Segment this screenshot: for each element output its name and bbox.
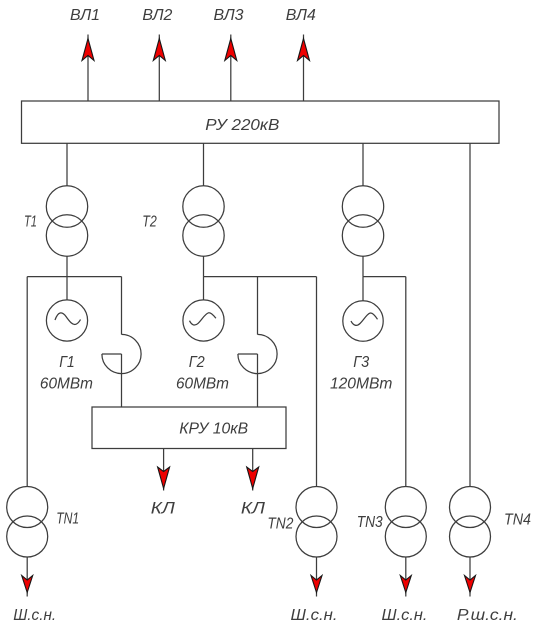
label Р.ш.с.н. (457, 607, 518, 624)
wire ВЛ3 to РУ 220кВ (230, 35, 232, 102)
generator Г3 (343, 301, 383, 341)
svg-text:Ш.с.н.: Ш.с.н. (13, 607, 56, 624)
arrow ВЛ3 (225, 39, 237, 61)
node ВЛ4 label (286, 7, 316, 24)
arrow КЛ2 (247, 467, 259, 489)
svg-text:60МВт: 60МВт (176, 376, 229, 393)
wire generator bus 2 (204, 276, 317, 278)
wire bus3 to Г3 (362, 277, 364, 301)
wire ВЛ2 to РУ 220кВ (158, 35, 160, 102)
label Г2 (189, 354, 205, 371)
wire bus1 to TN1 (26, 277, 28, 487)
label Г3 (353, 354, 369, 371)
svg-text:Т1: Т1 (24, 214, 37, 231)
wire bus2 to Г2 (203, 277, 205, 300)
wire bus2 to reactor 2 (257, 277, 259, 335)
label ТN1 (56, 511, 79, 528)
label 120МВт (330, 376, 393, 393)
svg-text:Р.ш.с.н.: Р.ш.с.н. (457, 607, 518, 624)
svg-text:ТN4: ТN4 (504, 512, 531, 529)
wire generator bus 1 (27, 276, 121, 278)
label Ш.с.н. 2 (291, 607, 338, 624)
label 60МВт (176, 376, 229, 393)
wire reactor 1 to КРУ (121, 354, 123, 407)
transformer T2 (183, 186, 224, 256)
label 60МВт (40, 376, 93, 393)
wire TN2 to Ш.с.н. (316, 557, 318, 597)
transformer T1 (46, 186, 87, 256)
wire TN1 to Ш.с.н. (26, 557, 28, 597)
reactor LR1 (102, 334, 141, 373)
wire bus1 to reactor 1 (121, 277, 123, 335)
svg-text:Г2: Г2 (189, 354, 205, 371)
node ВЛ2 label (142, 7, 172, 24)
arrow ВЛ4 (298, 39, 310, 61)
arrow TN2 output (311, 576, 322, 593)
svg-text:КРУ 10кВ: КРУ 10кВ (179, 421, 248, 438)
wire TN3 to Ш.с.н. (405, 557, 407, 597)
svg-text:Т2: Т2 (142, 214, 157, 231)
label Ш.с.н. 1 (13, 607, 56, 624)
label Т2 (142, 214, 157, 231)
wire РУ to T1 (66, 143, 68, 186)
wire bus2 to TN2 (316, 277, 318, 487)
label Г1 (59, 354, 75, 371)
node ВЛ3 label (214, 7, 244, 24)
wire ВЛ1 to РУ 220кВ (87, 35, 89, 102)
svg-text:120МВт: 120МВт (330, 376, 393, 393)
arrow TN4 output (465, 576, 476, 593)
busbar КРУ 10кВ (92, 407, 286, 449)
label КЛ2 (241, 499, 265, 518)
label Ш.с.н. 3 (382, 607, 428, 624)
svg-text:Ш.с.н.: Ш.с.н. (382, 607, 428, 624)
transformer T3 (342, 186, 383, 256)
transformer TN1 (7, 487, 48, 558)
svg-text:ТN3: ТN3 (357, 514, 383, 531)
svg-text:ТN1: ТN1 (56, 511, 79, 528)
wire РУ to T2 (203, 143, 205, 186)
label РУ 220кВ (205, 117, 279, 134)
wire ВЛ4 to РУ 220кВ (303, 35, 305, 102)
wire T2 to bus (203, 256, 205, 276)
wire РУ to TN4 (469, 143, 471, 486)
generator Г1 (46, 300, 87, 341)
wire bus3 to TN3 (405, 277, 407, 487)
transformer TN2 (296, 487, 337, 558)
svg-text:ВЛ3: ВЛ3 (214, 7, 244, 24)
svg-text:Г3: Г3 (353, 354, 369, 371)
svg-text:ВЛ4: ВЛ4 (286, 7, 316, 24)
svg-text:КЛ: КЛ (241, 499, 265, 518)
transformer TN3 (385, 487, 426, 558)
wire РУ to T3 (362, 143, 364, 186)
busbar РУ 220кВ (22, 101, 500, 143)
svg-text:Г1: Г1 (59, 354, 75, 371)
label КЛ1 (151, 499, 175, 518)
svg-text:Ш.с.н.: Ш.с.н. (291, 607, 338, 624)
wire T3 to bus (362, 256, 364, 276)
svg-text:ТN2: ТN2 (267, 516, 293, 533)
arrow ВЛ1 (82, 39, 94, 61)
node ВЛ1 label (70, 7, 100, 24)
arrow ВЛ2 (153, 39, 165, 61)
wire TN4 to Р.ш.с.н. (469, 557, 471, 597)
reactor LR2 (238, 334, 277, 373)
wire КРУ to КЛ1 (163, 449, 165, 491)
label ТN3 (357, 514, 383, 531)
svg-text:КЛ: КЛ (151, 499, 175, 518)
arrow TN3 output (400, 576, 411, 593)
label ТN2 (267, 516, 293, 533)
wire reactor 2 to КРУ (257, 354, 259, 407)
svg-text:ВЛ1: ВЛ1 (70, 7, 100, 24)
arrow TN1 output (22, 576, 33, 593)
svg-text:РУ 220кВ: РУ 220кВ (205, 117, 279, 134)
label КРУ 10кВ (179, 421, 248, 438)
label Т1 (24, 214, 37, 231)
svg-text:ВЛ2: ВЛ2 (142, 7, 172, 24)
label ТN4 (504, 512, 531, 529)
transformer TN4 (450, 487, 491, 558)
wire generator bus 3 (363, 276, 406, 278)
wire КРУ to КЛ2 (252, 449, 254, 491)
generator Г2 (183, 300, 224, 341)
wire bus1 to Г1 (66, 277, 68, 300)
svg-text:60МВт: 60МВт (40, 376, 93, 393)
wire T1 to bus (66, 256, 68, 276)
arrow КЛ1 (158, 467, 170, 489)
